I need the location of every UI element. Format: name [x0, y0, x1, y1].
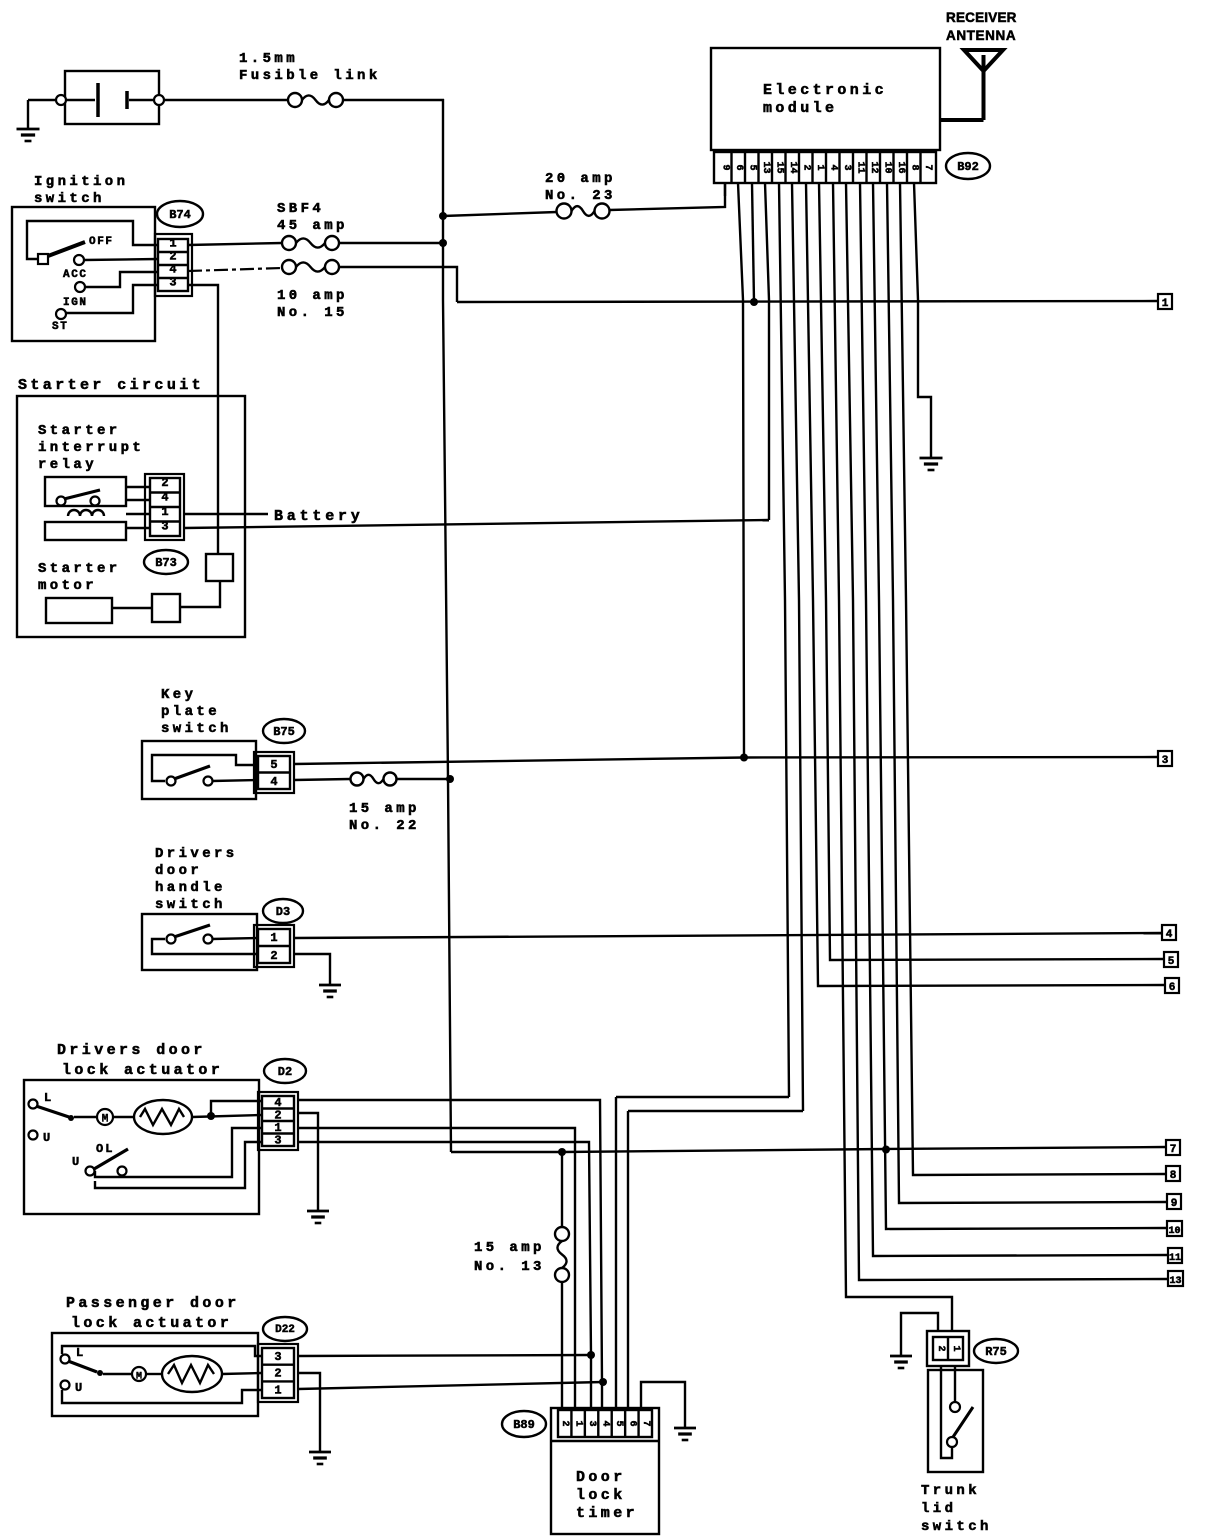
ground (drivers actuator): [307, 1210, 329, 1213]
svg-text:U: U: [75, 1381, 82, 1395]
svg-text:5: 5: [1168, 956, 1175, 968]
battery B1 plates: [66, 99, 95, 101]
terminal box 13: [1168, 1271, 1183, 1286]
wire connector pin3 to module pin13 wire: [184, 520, 769, 528]
wire handle pin1 to terminal 4: [294, 933, 1162, 938]
svg-text:Starter: Starter: [38, 561, 121, 577]
svg-text:Starter circuit: Starter circuit: [18, 377, 204, 394]
svg-text:3: 3: [586, 1420, 597, 1426]
handle switch contacts: [167, 935, 176, 944]
actuator unlock contact U: [29, 1131, 38, 1140]
svg-text:L: L: [76, 1346, 83, 1360]
door lock timer outer box: [551, 1408, 659, 1534]
connector label D3: [263, 899, 303, 923]
key plate switch internal loop: [152, 755, 258, 781]
fuse 10 amp No.15: [282, 260, 296, 274]
wire passenger pin1 loop: [62, 1390, 262, 1403]
wire ignition pin3 down to starter: [188, 285, 218, 554]
terminal box 5: [1164, 952, 1178, 967]
svg-text:3: 3: [841, 164, 852, 170]
svg-text:U: U: [43, 1131, 50, 1145]
connector label B73: [144, 550, 188, 574]
svg-text:9: 9: [719, 164, 730, 170]
handle switch connector pins 1,2: [254, 925, 294, 967]
actuator position switch: [86, 1167, 95, 1176]
starter interrupt relay contact frame: [45, 477, 126, 506]
svg-text:handle: handle: [155, 880, 226, 896]
terminal box 4: [1162, 925, 1176, 940]
svg-text:1: 1: [274, 1383, 281, 1397]
ignition switch blade: [48, 242, 85, 256]
svg-text:1: 1: [270, 931, 277, 945]
svg-text:plate: plate: [161, 704, 220, 720]
junction module pin6 wire / terminal-3 wire: [740, 754, 748, 762]
svg-text:L: L: [44, 1091, 51, 1105]
svg-text:D22: D22: [275, 1324, 295, 1336]
wire drivers actuator pin4 to timer pin4: [298, 1100, 602, 1410]
svg-text:U: U: [72, 1155, 79, 1169]
wire timer pin5 down: [615, 1097, 617, 1410]
wire connector pin1 Battery stub: [184, 513, 268, 515]
terminal box 8: [1166, 1166, 1180, 1181]
svg-text:switch: switch: [155, 897, 226, 913]
svg-text:No. 13: No. 13: [474, 1259, 545, 1275]
wire main feed to fuse No.23: [443, 212, 557, 216]
svg-text:9: 9: [1171, 1198, 1178, 1210]
svg-text:ST: ST: [52, 321, 68, 333]
terminal box 1: [1158, 294, 1172, 309]
wire module pin10 to terminal 9: [887, 183, 1167, 1203]
module connector B92 pins: [714, 152, 936, 183]
svg-text:B73: B73: [155, 556, 177, 570]
key plate switch blade: [174, 766, 210, 779]
wire battery to ground: [28, 99, 63, 101]
wire module pin13 to battery wire: [765, 183, 769, 520]
ground (module): [920, 457, 943, 460]
svg-text:B89: B89: [513, 1418, 535, 1432]
wire battery to fusible link: [164, 99, 288, 101]
wire timer pin6 horizontal: [628, 1110, 803, 1112]
svg-text:R75: R75: [985, 1345, 1007, 1359]
handle switch internal loop: [152, 939, 258, 954]
wire junction to pin4: [211, 1101, 262, 1116]
drivers door handle switch box: [142, 914, 257, 970]
junction main feed / 20 amp: [439, 212, 447, 220]
svg-text:B92: B92: [957, 160, 979, 174]
wire motor to pin2: [113, 1116, 134, 1118]
svg-text:10 amp: 10 amp: [277, 288, 348, 304]
wire fuse No.15 to node: [339, 267, 457, 302]
drivers door lock actuator box: [24, 1080, 259, 1214]
wire fuse No.13 to timer pin1: [561, 1282, 563, 1410]
svg-text:Key: Key: [161, 687, 196, 703]
svg-text:12: 12: [868, 161, 879, 173]
svg-text:Trunk: Trunk: [921, 1483, 980, 1499]
wire ignition pin4 to fuse No.15: [188, 268, 282, 271]
wire relay to connector pin2: [126, 486, 150, 488]
svg-text:13: 13: [760, 161, 771, 173]
fuse SBF4 45 amp: [282, 236, 296, 250]
svg-text:OFF: OFF: [89, 236, 114, 248]
connector label B89: [502, 1411, 546, 1437]
wire drivers actuator pin2 to ground: [298, 1113, 318, 1211]
svg-text:5: 5: [613, 1420, 624, 1426]
wire junction down to fuse No.13: [561, 1152, 563, 1227]
passenger lock contact L: [61, 1355, 70, 1364]
svg-text:2: 2: [800, 164, 811, 170]
svg-text:1: 1: [1162, 298, 1169, 310]
fusible link FL1: [288, 93, 302, 107]
wire key plate pin4 to fuse No.22: [294, 779, 350, 780]
actuator lock contact L: [29, 1100, 38, 1109]
junction terminal-7 wire / module pin12 wire: [882, 1146, 890, 1154]
svg-text:D3: D3: [276, 905, 290, 919]
svg-text:14: 14: [787, 161, 798, 173]
svg-text:3: 3: [274, 1350, 281, 1364]
wire passenger pin2 to ground: [298, 1373, 320, 1452]
wire trunk pin2 to ground: [901, 1313, 938, 1356]
terminal box 9: [1167, 1194, 1181, 1209]
wire lock blade to motor: [74, 1116, 97, 1118]
wire fuse No.22 to main feed: [396, 778, 450, 780]
terminal box 10: [1167, 1221, 1182, 1236]
svg-text:6: 6: [626, 1420, 637, 1426]
wire module pin11 to terminal 11: [860, 183, 1168, 1256]
svg-text:11: 11: [854, 161, 865, 173]
svg-text:RECEIVER: RECEIVER: [946, 10, 1017, 25]
svg-text:No. 15: No. 15: [277, 305, 348, 321]
svg-text:SBF4: SBF4: [277, 201, 324, 217]
wire handle pin2 to ground: [294, 954, 330, 985]
key plate switch box: [142, 741, 256, 799]
svg-text:ACC: ACC: [63, 269, 88, 281]
svg-text:No. 22: No. 22: [349, 818, 420, 834]
ignition switch ACC contact: [74, 255, 84, 265]
svg-text:OL: OL: [96, 1142, 114, 1156]
ground (passenger actuator): [309, 1451, 331, 1454]
wire aux block to solenoid: [180, 581, 220, 607]
ignition connector B74 pins 1,2,4,3: [155, 234, 192, 296]
svg-text:lid: lid: [921, 1501, 956, 1517]
junction passenger pin1 / timer pin4 wire: [599, 1378, 607, 1386]
wire passenger pin3 to junction: [298, 1355, 591, 1356]
trunk lid switch box: [928, 1370, 983, 1472]
connector label R75: [974, 1339, 1018, 1363]
wire motor to pin2 (passenger): [146, 1373, 162, 1375]
svg-text:6: 6: [1169, 982, 1176, 994]
svg-text:Drivers door: Drivers door: [57, 1042, 206, 1059]
svg-text:2: 2: [559, 1420, 570, 1426]
actuator lock blade: [36, 1106, 69, 1117]
svg-text:D2: D2: [278, 1065, 292, 1079]
starter solenoid block: [206, 554, 233, 581]
svg-text:M: M: [136, 1372, 142, 1383]
svg-text:45 amp: 45 amp: [277, 218, 348, 234]
passenger actuator connector pins 3,2,1: [258, 1344, 298, 1402]
trunk switch contacts: [950, 1402, 960, 1412]
trunk switch internal: [954, 1366, 956, 1402]
svg-text:11: 11: [1169, 1253, 1181, 1264]
svg-text:15 amp: 15 amp: [349, 801, 420, 817]
svg-text:lock actuator: lock actuator: [71, 1315, 232, 1332]
ignition switch internal wire pin1 loop: [27, 221, 158, 259]
svg-text:10: 10: [1168, 1226, 1180, 1237]
wire module pin16 to terminal 8: [900, 183, 1166, 1175]
ground (trunk lid switch): [890, 1355, 912, 1358]
wire key plate pin5 to terminal 3: [294, 758, 744, 765]
svg-text:No. 23: No. 23: [545, 188, 616, 204]
svg-text:4: 4: [270, 775, 277, 789]
junction module pin5 wire / terminal-1 wire: [750, 298, 758, 306]
junction main feed corner / fuse No.13: [558, 1148, 566, 1156]
svg-text:switch: switch: [34, 191, 105, 207]
svg-text:B75: B75: [273, 725, 295, 739]
svg-text:switch: switch: [921, 1519, 992, 1535]
wire drivers actuator pin1 to timer pin2: [298, 1128, 575, 1410]
starter motor block: [46, 598, 112, 623]
wire blade to motor (passenger): [103, 1373, 132, 1375]
wire module pin5 to terminal-1 junction: [752, 183, 754, 302]
svg-text:switch: switch: [161, 721, 232, 737]
wire actuator pin3 loop: [95, 1142, 262, 1188]
ground (door lock timer): [674, 1427, 696, 1430]
starter relay aux block: [152, 594, 180, 622]
wire starter motor to aux block: [112, 607, 152, 609]
starter relay coil: [68, 510, 104, 516]
svg-text:2: 2: [270, 949, 277, 963]
ground (battery negative): [27, 100, 29, 129]
wire timer pin7 to ground: [641, 1382, 685, 1428]
svg-text:1.5mm: 1.5mm: [239, 51, 298, 67]
starter relay connector pins 2,4,1,3: [145, 474, 184, 540]
wire main feed to terminal 7: [451, 1147, 1166, 1152]
handle switch blade: [174, 925, 210, 937]
starter circuit box: [17, 396, 245, 637]
svg-text:IGN: IGN: [63, 297, 88, 309]
svg-text:1: 1: [573, 1420, 584, 1426]
svg-text:ANTENNA: ANTENNA: [946, 28, 1016, 43]
terminal box 3: [1158, 751, 1172, 766]
terminal box 7: [1166, 1140, 1180, 1155]
trunk switch blade: [953, 1407, 973, 1437]
svg-text:6: 6: [733, 164, 744, 170]
wire module pin14 to timer pin6: [792, 183, 803, 1111]
junction motor output / pin4: [207, 1112, 215, 1120]
svg-text:13: 13: [1169, 1276, 1181, 1287]
svg-text:7: 7: [1170, 1144, 1177, 1156]
wire relay to connector pin3: [126, 527, 150, 529]
wire timer pin5 horizontal: [616, 1096, 789, 1098]
svg-text:module: module: [763, 100, 837, 117]
actuator resistor: [134, 1100, 192, 1134]
ignition switch IGN contact: [75, 282, 85, 292]
wire drivers actuator pin3 to timer pin3: [298, 1142, 591, 1410]
battery B1 box: [65, 71, 159, 124]
svg-text:15: 15: [773, 161, 784, 173]
timer connector B89 pins: [558, 1410, 652, 1437]
junction main feed / fuse No.22: [446, 775, 454, 783]
svg-text:1: 1: [950, 1345, 961, 1351]
svg-text:4: 4: [1166, 929, 1173, 941]
junction main feed / SBF4: [439, 239, 447, 247]
wire module pin8 to ground: [914, 183, 931, 458]
connector label B74: [157, 201, 203, 227]
svg-text:20 amp: 20 amp: [545, 171, 616, 187]
key plate switch contacts: [167, 777, 176, 786]
svg-text:Drivers: Drivers: [155, 846, 238, 862]
svg-text:lock actuator: lock actuator: [62, 1062, 223, 1079]
wire main feed vertical (battery +): [443, 99, 451, 1152]
svg-text:Door: Door: [576, 1469, 626, 1486]
svg-text:5: 5: [270, 758, 277, 772]
ignition switch box: [12, 207, 155, 341]
svg-text:motor: motor: [38, 578, 97, 594]
svg-text:7: 7: [922, 164, 933, 170]
fuse 15 amp No.22: [351, 773, 364, 786]
wire module pin4 to trunk lid switch: [833, 183, 952, 1331]
connector label D22: [263, 1317, 307, 1341]
passenger lock blade: [68, 1361, 97, 1372]
svg-text:2: 2: [161, 476, 168, 490]
svg-text:Starter: Starter: [38, 423, 121, 439]
svg-text:Battery: Battery: [274, 508, 364, 525]
wire fuse No.23 to module pin 9: [609, 183, 725, 210]
svg-text:8: 8: [1170, 1170, 1177, 1182]
wire to terminal 3: [744, 756, 1158, 759]
fuse 15 amp No.13: [555, 1227, 569, 1241]
svg-text:1: 1: [169, 237, 176, 251]
ground (handle switch): [319, 984, 341, 987]
wire relay coil to connector pin4: [126, 499, 150, 501]
wire node to terminal 1: [457, 301, 1158, 302]
svg-text:4: 4: [827, 164, 838, 170]
svg-text:Ignition: Ignition: [34, 174, 128, 190]
drivers actuator connector pins 4,2,1,3: [258, 1092, 298, 1150]
key plate connector pins 5,4: [254, 752, 294, 793]
svg-text:7: 7: [640, 1420, 651, 1426]
starter relay coil frame: [45, 522, 126, 540]
electronic module box: [711, 48, 940, 150]
svg-text:relay: relay: [38, 457, 97, 473]
terminal box 11: [1168, 1248, 1182, 1263]
svg-text:10: 10: [881, 161, 892, 173]
battery B1 terminals: [56, 95, 66, 105]
connector label B92: [946, 153, 990, 179]
fuse 20 amp No.23: [557, 204, 572, 219]
wire ignition pin1 to SBF4: [188, 243, 282, 245]
svg-text:lock: lock: [576, 1487, 626, 1504]
starter relay contacts: [57, 497, 66, 506]
passenger unlock contact U: [61, 1381, 70, 1390]
wire module pin1 to terminal 5: [819, 183, 1164, 960]
svg-text:15 amp: 15 amp: [474, 1240, 545, 1256]
wire passenger pin1 to junction: [298, 1382, 603, 1389]
svg-text:M: M: [102, 1114, 109, 1126]
wire module pin2 to terminal 6: [806, 183, 1165, 986]
svg-text:door: door: [155, 863, 202, 879]
wire actuator pin1 loop: [95, 1128, 262, 1177]
svg-text:16: 16: [895, 161, 906, 173]
actuator motor M: [97, 1109, 113, 1125]
wire timer pin6 down: [627, 1111, 629, 1410]
wire key switch to pin4: [212, 780, 258, 781]
wire module pin6 to terminal-3 junction: [738, 183, 744, 758]
connector label B75: [263, 719, 305, 743]
svg-text:1: 1: [814, 164, 825, 170]
svg-text:Electronic: Electronic: [763, 82, 887, 99]
ignition switch rotor pivot: [38, 254, 48, 264]
svg-text:2: 2: [935, 1345, 946, 1351]
wire module pin15 to timer pin5: [779, 183, 789, 1097]
svg-text:Passenger door: Passenger door: [66, 1295, 240, 1312]
ignition switch ST contact: [56, 309, 66, 319]
trunk lid switch connector pins 2,1: [927, 1331, 969, 1366]
terminal box 6: [1165, 978, 1179, 993]
wire module pin9 stub: [724, 183, 726, 196]
wire relay to connector pin1: [126, 513, 150, 515]
wire fusible link to main feed: [343, 99, 444, 101]
svg-text:4: 4: [600, 1420, 611, 1426]
wire passenger pin3 loop: [62, 1346, 262, 1356]
svg-text:interrupt: interrupt: [38, 440, 144, 456]
junction passenger pin3 / timer pin3 wire: [587, 1351, 595, 1359]
svg-text:3: 3: [1162, 755, 1169, 767]
wire SBF4 to main feed: [339, 242, 444, 244]
wire handle switch to pin1: [212, 938, 258, 939]
svg-text:timer: timer: [576, 1505, 638, 1522]
svg-text:3: 3: [274, 1134, 281, 1148]
passenger door lock actuator box: [52, 1333, 258, 1416]
svg-text:5: 5: [746, 164, 757, 170]
wire module pin12 to terminal 10: [873, 183, 1167, 1229]
svg-text:Fusible link: Fusible link: [239, 68, 381, 84]
receiver antenna: [964, 50, 1003, 71]
svg-text:B74: B74: [169, 208, 191, 222]
door lock timer inner divider: [551, 1440, 659, 1442]
wire module pin3 to terminal 13: [846, 183, 1168, 1280]
svg-text:8: 8: [908, 164, 919, 170]
passenger motor M: [132, 1367, 146, 1381]
passenger resistor: [162, 1356, 222, 1392]
connector label D2: [264, 1059, 306, 1083]
svg-text:2: 2: [274, 1367, 281, 1381]
